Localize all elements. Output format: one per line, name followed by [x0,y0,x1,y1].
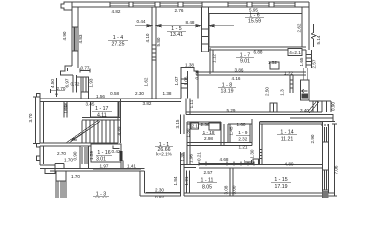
pier in 1-8 [270,103,277,112]
svg-text:1.62: 1.62 [144,77,149,86]
svg-text:3.82: 3.82 [143,101,152,106]
svg-text:4.90: 4.90 [62,31,67,40]
step structure right of it [181,68,198,99]
svg-text:1.11: 1.11 [189,99,194,108]
svg-text:2.30: 2.30 [155,188,164,193]
stair arrow [72,125,95,140]
svg-text:1 - 18: 1 - 18 [203,130,215,135]
svg-text:8.05: 8.05 [202,185,212,191]
stair treads [82,121,114,144]
svg-text:1.19: 1.19 [64,104,69,113]
svg-text:1.97: 1.97 [100,163,109,168]
svg-text:3.45: 3.45 [86,101,95,106]
room 1-6 bottom wall [209,46,306,48]
top wall outer [72,1,309,3]
svg-text:4=2.1: 4=2.1 [289,50,301,55]
right outer wall top [308,2,310,50]
svg-text:0.72: 0.72 [71,82,80,87]
1-18 box [186,122,188,165]
wall x140-144.5 [139,171,141,196]
svg-text:3.01: 3.01 [96,156,106,162]
svg-text:2.98: 2.98 [204,136,213,141]
svg-text:0.21: 0.21 [197,152,202,161]
svg-text:3.08: 3.08 [224,185,229,194]
svg-text:1.3: 1.3 [280,89,285,96]
top-left pilaster [61,2,72,10]
dim line y169 [93,168,141,170]
svg-text:2.36: 2.36 [201,122,210,127]
black hatch chimney [302,94,309,99]
svg-text:1.59: 1.59 [89,151,94,160]
dim 4.68 line [199,163,234,165]
wall above stair (y91-94) [40,98,181,100]
svg-text:1.07: 1.07 [174,76,179,85]
svg-text:6.88: 6.88 [254,50,263,55]
wall x230-233 (1-11/1-15) [229,168,231,196]
svg-text:1.52: 1.52 [268,60,277,65]
svg-text:3.40: 3.40 [300,108,309,113]
svg-text:1.35: 1.35 [180,152,185,161]
svg-text:0.90: 0.90 [73,151,78,160]
svg-text:4.80: 4.80 [285,161,294,166]
svg-text:1 - 9: 1 - 9 [238,130,248,135]
wall y164.5-167.5 x180-199 [181,164,200,166]
svg-text:1.72: 1.72 [284,71,293,76]
svg-text:5.14: 5.14 [316,35,321,44]
svg-text:1.93: 1.93 [88,78,93,87]
wall x180.5-184 (1-1 right) [180,115,182,135]
landing [322,115,335,122]
wall x186-190 y96-114 [185,99,187,115]
short wall under 1-16 window [120,161,122,169]
svg-text:0.44: 0.44 [137,19,146,24]
svg-text:2.57: 2.57 [312,59,317,68]
thin wall y168.5-171 [50,168,145,170]
dim lines top (0.44/8.48) [135,24,234,27]
svg-text:2.70: 2.70 [57,86,66,91]
svg-text:4.10: 4.10 [145,33,150,42]
svg-text:0.58: 0.58 [110,91,119,96]
step near 1.52 [270,62,279,69]
svg-text:9.01: 9.01 [240,59,250,65]
svg-text:1.30: 1.30 [250,149,255,158]
svg-text:0.42: 0.42 [112,149,121,154]
svg-text:1.38: 1.38 [185,63,194,68]
svg-text:4.11: 4.11 [97,112,107,118]
svg-text:1.41: 1.41 [127,163,136,168]
dim 3.70 line [35,97,37,144]
wall between 1-5 and 1-6 x201.5-208.5 [201,7,203,52]
1-17 room box [63,101,65,117]
svg-text:2.70: 2.70 [57,151,66,156]
svg-text:1.30: 1.30 [186,128,191,137]
left bump [45,169,55,174]
left wall [71,2,73,66]
svg-text:17.19: 17.19 [275,184,288,190]
svg-text:3.70: 3.70 [28,113,33,122]
svg-text:7.06: 7.06 [334,165,339,174]
svg-text:k=2.1%: k=2.1% [156,151,171,156]
svg-text:0.90: 0.90 [331,102,336,111]
svg-text:4.83: 4.83 [78,34,83,43]
stair diagonals [66,121,98,144]
svg-text:3.86: 3.86 [235,67,244,72]
svg-text:1.96: 1.96 [188,154,193,163]
svg-text:0.92: 0.92 [155,195,164,198]
svg-text:1.84: 1.84 [173,176,178,185]
vertical wall x152-156 [151,7,153,99]
ticks below wall [322,124,328,126]
svg-text:0.77: 0.77 [81,65,90,70]
long wall B y164.5-168 [199,164,322,166]
svg-text:1.56: 1.56 [96,94,105,99]
below stair: outer wall [39,146,41,165]
entry stair right side [309,100,331,102]
svg-text:1.12: 1.12 [212,54,217,63]
svg-text:1.70: 1.70 [71,174,80,179]
svg-text:2.32: 2.32 [238,137,247,142]
svg-text:4.16: 4.16 [232,76,241,81]
svg-text:1.21: 1.21 [184,176,189,185]
door jamb pier above wall B [253,159,259,165]
svg-text:2.30: 2.30 [135,91,144,96]
top notch [37,94,41,99]
vertical arm [54,164,56,169]
svg-text:15.59: 15.59 [248,19,261,25]
svg-text:1.21: 1.21 [239,145,248,150]
svg-text:1.65: 1.65 [299,57,304,66]
left wall window [72,27,78,51]
svg-text:2.90: 2.90 [310,134,315,143]
wall A y112-114.5 [186,111,322,113]
room 1-7/1-8 divider wall y72-75 [196,71,306,73]
svg-text:3.00: 3.00 [232,185,237,194]
hatch window near 1-16 [79,146,81,169]
svg-text:27.25: 27.25 [112,42,125,48]
svg-text:8.48: 8.48 [186,20,195,25]
svg-text:2.1: 2.1 [192,124,199,129]
window lines top wall [110,2,295,7]
room 1-16 [91,144,121,162]
right wall bottom x322-329 [322,122,324,199]
svg-text:1.06: 1.06 [184,76,189,85]
bottom wall 1-11/1-15 [184,192,335,194]
bottom wall 1-3 [145,192,182,194]
svg-text:4.50: 4.50 [50,79,55,88]
svg-text:3.15: 3.15 [175,119,180,128]
svg-text:5.80: 5.80 [156,37,161,46]
svg-text:5.29: 5.29 [227,108,236,113]
dim 7.06 extension line [334,124,336,196]
svg-text:13.19: 13.19 [221,89,234,95]
left wall step down [61,66,74,75]
svg-text:1.60: 1.60 [237,122,246,127]
1-9 box [227,124,229,143]
svg-text:2.62: 2.62 [297,23,302,32]
svg-text:4.49: 4.49 [117,126,122,135]
svg-text:11.21: 11.21 [281,137,294,143]
svg-text:4.82: 4.82 [112,9,121,14]
1-14 box [260,121,323,123]
lintel label box 4=2.1 [288,49,302,56]
svg-text:2.76: 2.76 [175,8,184,13]
svg-text:2.50: 2.50 [265,87,270,96]
top wall inner [72,6,309,8]
svg-text:4.68: 4.68 [220,157,229,162]
svg-text:1.38: 1.38 [163,91,172,96]
svg-text:18.61: 18.61 [95,197,108,198]
svg-text:13.41: 13.41 [170,32,183,38]
wall x289-293 with rungs [289,75,291,93]
svg-text:1.45: 1.45 [229,126,234,135]
svg-text:2.57: 2.57 [204,170,213,175]
break symbol [312,24,317,47]
bottom notch [37,144,41,148]
svg-text:0.46: 0.46 [195,70,200,79]
stair block walls [39,99,41,143]
room 1-7 left wall [209,48,211,74]
bottom hatch wall [55,171,57,198]
